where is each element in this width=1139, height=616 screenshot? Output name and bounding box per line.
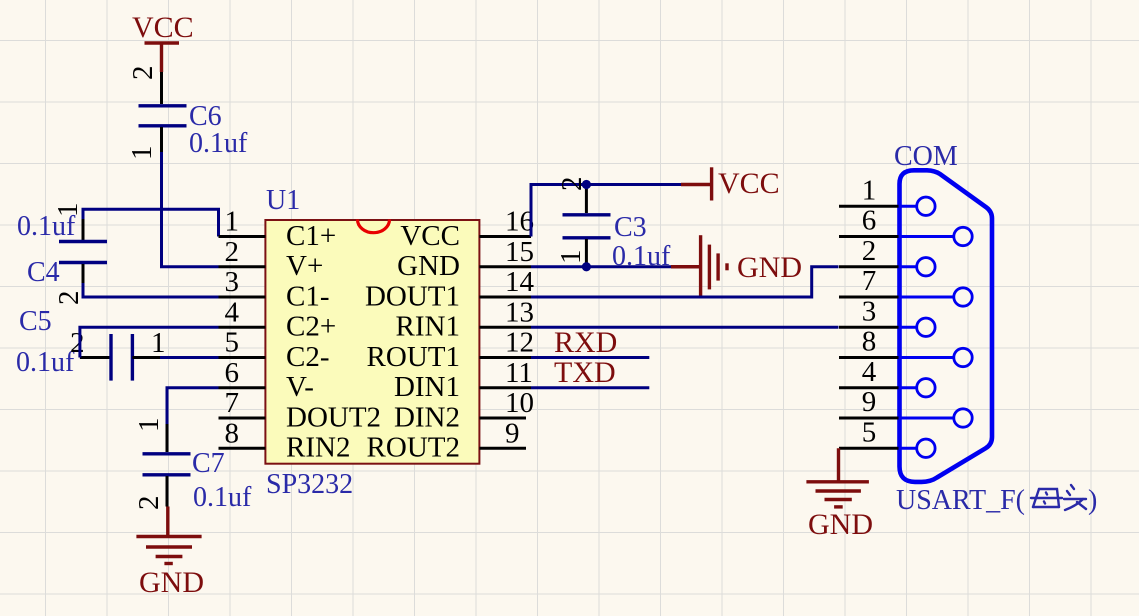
svg-text:C3: C3 <box>614 212 647 243</box>
svg-text:9: 9 <box>505 417 520 449</box>
svg-text:C4: C4 <box>27 257 60 288</box>
svg-text:2: 2 <box>862 235 877 267</box>
pin 3 C1- <box>219 266 330 312</box>
connector pin 3 <box>839 295 935 336</box>
wire pin13 RIN1 to DB9 pin3 <box>531 326 839 329</box>
svg-text:2: 2 <box>127 66 159 81</box>
pin 14 DOUT1 <box>365 266 535 312</box>
power port VCC (top) <box>132 11 194 72</box>
pin 10 DIN2 <box>394 387 534 433</box>
svg-text:C2-: C2- <box>286 341 330 373</box>
connector COM outline <box>894 141 992 482</box>
svg-text:0.1uf: 0.1uf <box>189 128 248 159</box>
wire C7 pin1 to pin6 V- <box>167 388 219 452</box>
connector label USART_F <box>896 485 1097 516</box>
svg-text:USART_F(: USART_F( <box>896 485 1025 516</box>
svg-text:COM: COM <box>894 141 958 172</box>
wire C5 pin2 to pin4 C2+ <box>80 327 219 357</box>
power port VCC (right) <box>681 167 780 201</box>
svg-text:): ) <box>1088 485 1097 516</box>
wire C6 to pin2 V+ <box>162 127 219 267</box>
svg-text:5: 5 <box>225 327 240 359</box>
svg-text:TXD: TXD <box>554 356 616 389</box>
ground GND (right, rotated) <box>671 235 802 296</box>
net label RXD and wire <box>531 326 649 359</box>
svg-text:DIN1: DIN1 <box>394 371 460 403</box>
IC U1 SP3232 body <box>265 185 479 500</box>
pin 5 C2- <box>219 327 330 373</box>
pin 15 GND <box>397 236 534 282</box>
svg-text:RIN1: RIN1 <box>396 311 460 343</box>
svg-text:1: 1 <box>862 174 877 206</box>
wire pin15 to GND <box>531 265 671 268</box>
svg-text:VCC: VCC <box>400 220 460 252</box>
wire C4 pin1 to pin1 C1+ <box>83 209 219 240</box>
svg-text:C7: C7 <box>192 448 225 479</box>
svg-text:8: 8 <box>862 326 877 358</box>
svg-text:U1: U1 <box>266 185 300 216</box>
svg-text:9: 9 <box>862 386 877 418</box>
wire C4 pin2 to pin3 C1- <box>83 263 219 297</box>
svg-text:DIN2: DIN2 <box>394 401 460 433</box>
svg-text:DOUT1: DOUT1 <box>365 280 460 312</box>
svg-text:10: 10 <box>505 387 534 419</box>
pin 9 ROUT2 <box>367 417 526 463</box>
svg-text:V-: V- <box>286 371 314 403</box>
svg-text:ROUT2: ROUT2 <box>367 432 460 464</box>
pin 4 C2+ <box>219 296 337 342</box>
svg-text:12: 12 <box>505 327 534 359</box>
pin 2 V+ <box>219 236 324 282</box>
connector pin 2 <box>839 235 935 276</box>
capacitor C7 <box>133 418 252 514</box>
svg-text:1: 1 <box>555 250 587 265</box>
svg-text:3: 3 <box>225 266 240 298</box>
connector pin 5 <box>839 416 935 457</box>
svg-text:13: 13 <box>505 296 534 328</box>
ground GND (DB9 pin5) <box>806 448 873 541</box>
svg-text:5: 5 <box>862 416 877 448</box>
svg-text:RIN2: RIN2 <box>286 432 350 464</box>
pin 13 RIN1 <box>396 296 534 342</box>
capacitor C5 <box>16 306 166 381</box>
pin 12 ROUT1 <box>367 327 534 373</box>
svg-text:RXD: RXD <box>554 326 617 359</box>
svg-text:DOUT2: DOUT2 <box>286 401 381 433</box>
svg-text:1: 1 <box>133 418 165 433</box>
svg-text:C5: C5 <box>19 306 52 337</box>
svg-text:GND: GND <box>737 251 802 284</box>
svg-text:8: 8 <box>225 417 240 449</box>
svg-text:7: 7 <box>225 387 240 419</box>
svg-text:VCC: VCC <box>718 167 780 200</box>
connector pin 7 <box>839 265 972 306</box>
pin 6 V- <box>219 357 314 403</box>
svg-text:6: 6 <box>862 205 877 237</box>
svg-text:GND: GND <box>808 508 873 541</box>
capacitor C6 <box>126 66 248 161</box>
svg-text:2: 2 <box>133 496 165 511</box>
svg-text:1: 1 <box>151 327 166 359</box>
svg-text:11: 11 <box>505 357 533 389</box>
connector pin 1 <box>839 174 935 215</box>
svg-text:6: 6 <box>225 357 240 389</box>
junction C3 top <box>582 180 591 189</box>
net label TXD and wire <box>531 356 649 389</box>
svg-text:ROUT1: ROUT1 <box>367 341 460 373</box>
svg-text:15: 15 <box>505 236 534 268</box>
wire C5 pin1 to pin5 C2- <box>160 356 219 359</box>
svg-text:1: 1 <box>225 206 240 238</box>
svg-text:2: 2 <box>225 236 240 268</box>
svg-text:0.1uf: 0.1uf <box>193 482 252 513</box>
svg-text:SP3232: SP3232 <box>266 469 353 500</box>
svg-text:VCC: VCC <box>132 11 194 44</box>
svg-text:4: 4 <box>225 296 240 328</box>
pin 1 C1+ <box>219 206 337 252</box>
ground GND (bottom left) <box>136 507 204 600</box>
svg-text:C1-: C1- <box>286 280 330 312</box>
svg-text:2: 2 <box>53 291 85 306</box>
connector pin 9 <box>839 386 972 427</box>
svg-text:C1+: C1+ <box>286 220 336 252</box>
capacitor C3 <box>555 177 671 273</box>
connector pin 8 <box>839 326 972 367</box>
connector pin 4 <box>839 356 935 397</box>
svg-text:2: 2 <box>70 327 85 359</box>
pin 7 DOUT2 <box>219 387 382 433</box>
svg-text:GND: GND <box>139 566 204 599</box>
svg-text:1: 1 <box>52 203 84 218</box>
pin 11 DIN1 <box>394 357 533 403</box>
svg-text:7: 7 <box>862 265 877 297</box>
pin 8 RIN2 <box>219 417 351 463</box>
wire pin14 DOUT1 to DB9 pin2 <box>531 267 839 297</box>
svg-text:GND: GND <box>397 250 460 282</box>
svg-text:14: 14 <box>505 266 535 298</box>
notch arc on U1 <box>358 220 390 233</box>
connector pin 6 <box>839 205 972 246</box>
pin 16 VCC <box>400 206 534 252</box>
svg-text:C2+: C2+ <box>286 311 336 343</box>
svg-text:1: 1 <box>126 146 158 161</box>
svg-text:4: 4 <box>862 356 877 388</box>
svg-text:0.1uf: 0.1uf <box>16 347 75 378</box>
capacitor C4 <box>17 203 107 306</box>
svg-text:3: 3 <box>862 295 877 327</box>
wire pin16 to VCC net <box>531 185 681 237</box>
junction C3 bottom <box>582 262 591 271</box>
svg-text:V+: V+ <box>286 250 323 282</box>
